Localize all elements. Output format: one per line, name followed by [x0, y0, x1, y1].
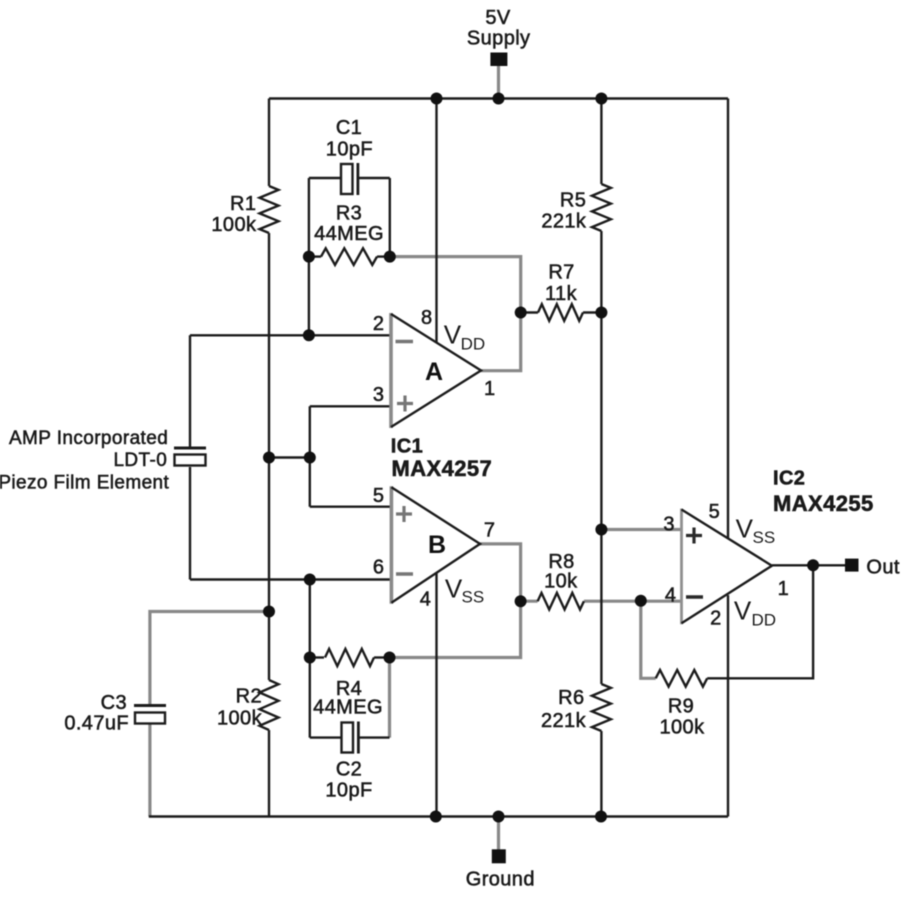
svg-text:R1: R1 [230, 193, 256, 215]
resistor R2 [260, 680, 279, 730]
svg-text:B: B [428, 531, 446, 559]
node top rail / VDD column [431, 93, 443, 105]
svg-text:7: 7 [484, 520, 495, 542]
svg-text:100k: 100k [211, 214, 257, 236]
node output / R9 [807, 559, 819, 571]
svg-text:Piezo Film Element: Piezo Film Element [0, 473, 170, 494]
svg-text:0.47uF: 0.47uF [64, 713, 129, 735]
node mid bias right [304, 452, 316, 464]
svg-text:MAX4257: MAX4257 [392, 456, 493, 481]
wire left column upper (R1 branch) [268, 99, 270, 187]
wire pin 2 row [190, 334, 391, 336]
wire R5/R6 column bottom [600, 731, 602, 817]
node bottom rail / ground [493, 811, 505, 823]
svg-text:2: 2 [710, 608, 721, 630]
wire pin3-pin5 bracket [309, 406, 311, 506]
wire pin 3 row [310, 405, 391, 407]
wire top supply rail [269, 97, 728, 99]
node R4 left [304, 652, 316, 664]
label VDD op-amp A [444, 319, 485, 353]
wire C2 right lead [358, 736, 389, 738]
resistor R3 [321, 248, 377, 265]
svg-text:V: V [736, 514, 754, 544]
resistor R1 [260, 186, 279, 233]
wire R4/C2 left bracket [309, 580, 311, 738]
wire VSS column lower (pin 4 of B) [435, 574, 437, 817]
terminal out square [845, 559, 859, 572]
svg-text:44MEG: 44MEG [313, 697, 383, 719]
wire left column middle [268, 233, 270, 680]
svg-text:4: 4 [665, 585, 676, 607]
svg-text:10pF: 10pF [325, 780, 372, 802]
node pin2 / R3 bracket [303, 329, 315, 341]
capacitor C3 [134, 704, 166, 724]
wire R8 right lead to IC2 pin 4 [584, 600, 682, 603]
wire op-amp A feedback loop (output pin1 to R3/C1) [390, 257, 521, 371]
svg-text:DD: DD [461, 334, 486, 353]
wire R5/R6 column top [600, 99, 602, 185]
node R7 right [595, 307, 607, 319]
node top rail / R5 column [595, 93, 607, 105]
resistor R4 [325, 649, 374, 666]
svg-text:100k: 100k [660, 717, 706, 739]
svg-text:3: 3 [663, 514, 674, 536]
svg-text:5V: 5V [485, 7, 511, 29]
svg-text:3: 3 [373, 384, 384, 406]
wire R8 left lead [521, 600, 538, 603]
node pin6 / R4 bracket [304, 574, 316, 586]
piezo film element LDT-0 [174, 447, 206, 466]
wire piezo bottom lead [189, 467, 191, 580]
svg-text:A: A [425, 358, 443, 386]
wire piezo top lead [189, 335, 191, 447]
node R4 right [384, 652, 396, 664]
svg-text:R7: R7 [548, 262, 574, 284]
wire VDD column upper (pin 8 of A) [435, 99, 437, 343]
wire left column lower [268, 730, 270, 817]
svg-text:Supply: Supply [467, 28, 531, 50]
svg-text:IC1: IC1 [391, 436, 423, 458]
wire R9 branch from pin4 node [641, 601, 656, 679]
svg-text:V: V [444, 319, 462, 349]
wire pin 6 row [190, 578, 391, 580]
label VSS IC2 [736, 514, 776, 548]
svg-text:MAX4255: MAX4255 [773, 491, 874, 516]
svg-text:6: 6 [373, 556, 384, 578]
node C3 branch [263, 606, 275, 618]
node bottom rail / R6 column [595, 811, 607, 823]
wire R4 left lead [310, 656, 324, 658]
wire R7 left lead [521, 311, 538, 313]
svg-text:5: 5 [373, 485, 384, 507]
svg-text:C1: C1 [336, 117, 362, 139]
node bottom rail / VSS column [430, 811, 442, 823]
svg-text:1: 1 [484, 378, 495, 400]
wire op-amp B output loop (pin7 down to R4/C2 right side) [390, 544, 521, 658]
wire C2 left lead [310, 736, 341, 738]
node R8 left / pin7 loop [515, 595, 527, 607]
svg-text:1: 1 [778, 578, 789, 600]
wire bottom ground rail [149, 815, 728, 817]
wire mid node connector [269, 456, 310, 458]
node R3 right [384, 251, 396, 263]
svg-text:DD: DD [752, 611, 777, 630]
svg-text:2: 2 [373, 313, 384, 335]
resistor R6 [592, 684, 611, 731]
wire right rail upper [727, 99, 729, 539]
svg-text:8: 8 [421, 307, 432, 329]
wire R7 right lead [583, 311, 601, 313]
resistor R8 [538, 593, 584, 610]
svg-text:Ground: Ground [466, 869, 535, 891]
wire C1 right lead [358, 177, 390, 179]
wire C1/R3 right bracket [389, 178, 391, 257]
svg-text:AMP Incorporated: AMP Incorporated [9, 428, 168, 449]
resistor R9 [656, 670, 708, 687]
capacitor C1 [341, 163, 359, 195]
svg-text:R5: R5 [560, 190, 586, 212]
terminal 5V supply square [490, 53, 507, 67]
label VSS op-amp B [445, 573, 484, 606]
svg-text:221k: 221k [541, 211, 587, 233]
wire C3 branch [150, 612, 269, 705]
node R5/R6 divider (IC2 pin3) [595, 524, 607, 536]
svg-text:5: 5 [709, 501, 720, 523]
node IC2 pin4 / R9 [635, 595, 647, 607]
wire pin 5 row [310, 506, 392, 508]
svg-text:221k: 221k [541, 710, 587, 732]
resistor R7 [538, 304, 583, 321]
wire supply stub [497, 64, 500, 99]
node R7 left [515, 307, 527, 319]
capacitor C2 [342, 722, 360, 754]
svg-text:IC2: IC2 [773, 468, 805, 490]
node R3 left [303, 251, 315, 263]
terminal ground square [492, 849, 506, 863]
wire R3 right lead [377, 255, 390, 257]
wire right rail lower [727, 595, 729, 816]
label VDD IC2 [734, 596, 776, 630]
svg-text:SS: SS [462, 588, 485, 607]
wire C1 left lead [309, 177, 340, 179]
op-amp B (IC1) [391, 486, 480, 604]
wire R9 to output node [707, 565, 813, 678]
wire R4/C2 right bracket [388, 658, 391, 738]
svg-text:11k: 11k [545, 283, 578, 305]
wire ground stub [497, 817, 500, 851]
svg-text:44MEG: 44MEG [314, 223, 384, 245]
svg-text:4: 4 [420, 588, 431, 610]
svg-text:V: V [445, 573, 463, 603]
svg-text:SS: SS [753, 528, 776, 547]
wire IC2 pin 3 input [601, 528, 681, 531]
svg-text:C2: C2 [336, 759, 362, 781]
svg-text:R9: R9 [668, 696, 694, 718]
op-amp U2 IC2 [682, 509, 772, 625]
svg-text:10k: 10k [544, 571, 578, 593]
svg-text:R2: R2 [236, 686, 262, 708]
svg-text:Out: Out [866, 557, 899, 579]
node top rail / supply [493, 93, 505, 105]
svg-text:V: V [734, 596, 752, 626]
wire R3 left lead [309, 255, 321, 257]
wire R4 right lead [374, 656, 390, 658]
svg-text:R6: R6 [558, 687, 584, 709]
svg-text:LDT-0: LDT-0 [113, 450, 167, 471]
svg-text:C3: C3 [101, 692, 127, 714]
wire C1/R3 left bracket [308, 178, 310, 335]
svg-text:R3: R3 [336, 203, 362, 225]
wire R5/R6 column middle [600, 231, 602, 684]
wire IC2 output pin 1 [772, 564, 845, 566]
node mid bias left [263, 452, 275, 464]
svg-text:10pF: 10pF [326, 139, 373, 161]
resistor R5 [592, 184, 611, 231]
svg-text:100k: 100k [217, 708, 263, 730]
wire C3 bottom lead [148, 725, 151, 817]
op-amp A (IC1) [391, 313, 481, 428]
